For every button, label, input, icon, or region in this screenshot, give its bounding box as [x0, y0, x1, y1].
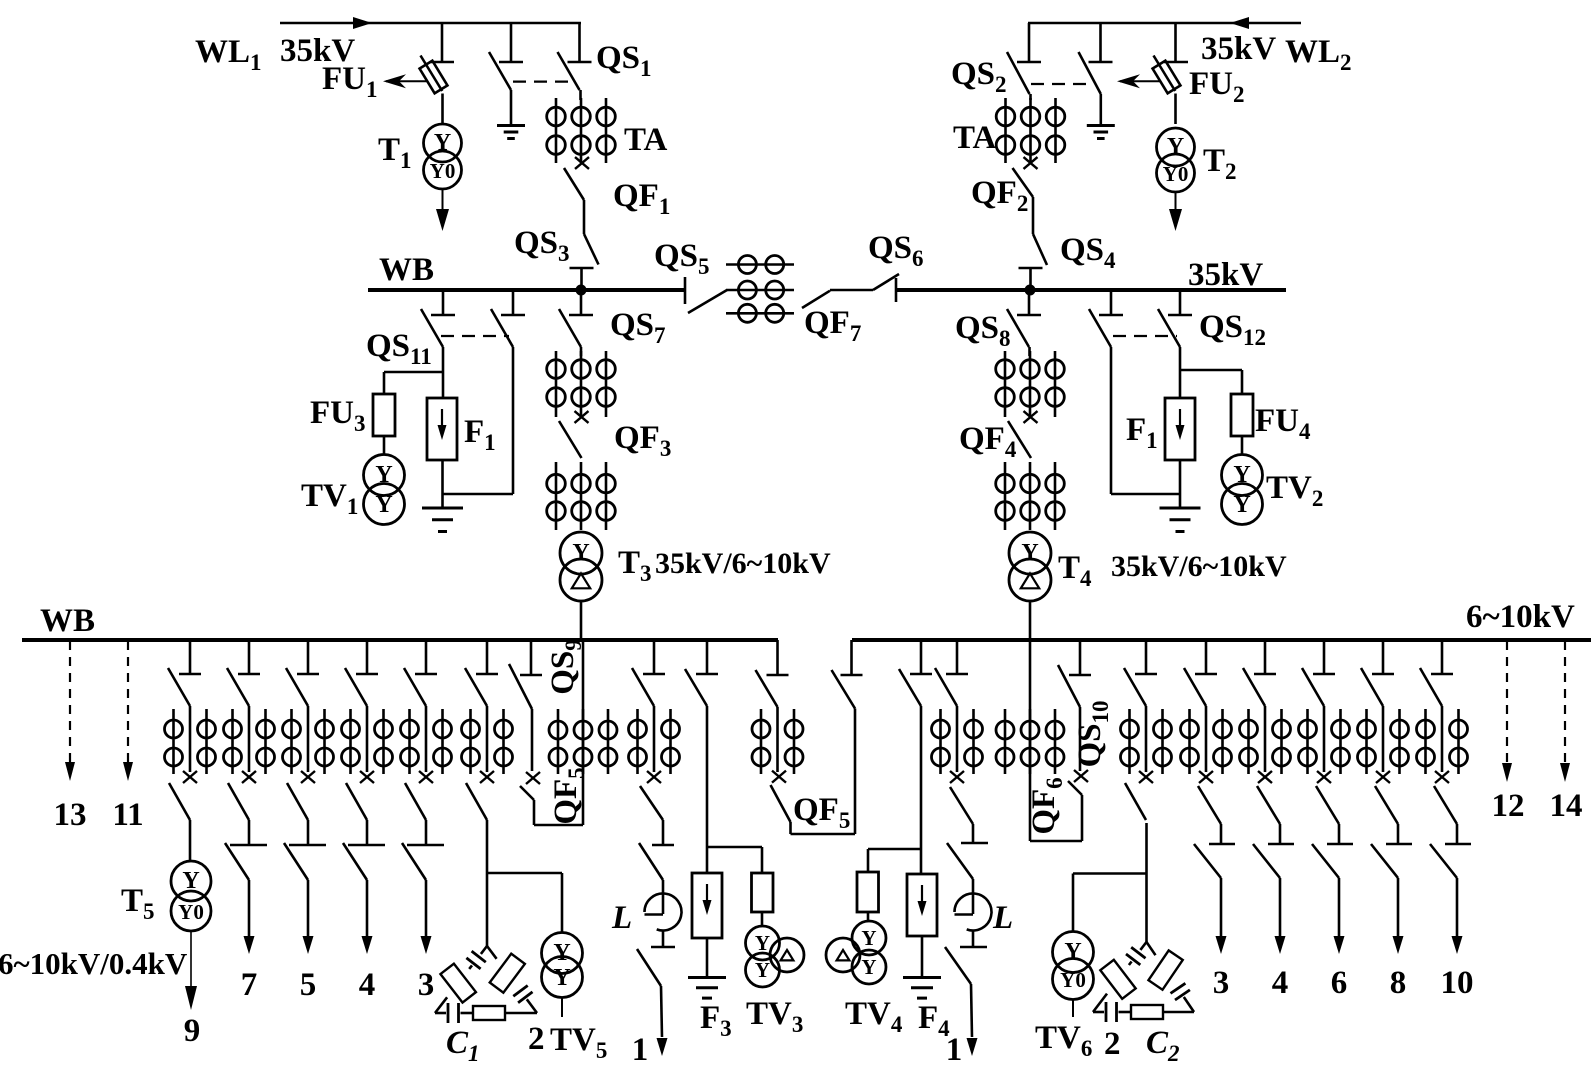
incoming line WL1 35kV: [280, 22, 581, 25]
disconnector QS11 (left branch): [421, 290, 455, 347]
fuse FU4: [1231, 370, 1253, 436]
svg-text:11: 11: [112, 797, 143, 833]
disconnector QS9: [509, 640, 542, 709]
svg-text:1: 1: [632, 1032, 649, 1066]
disconnector (feeder 4 feeder): [345, 640, 378, 706]
station transformer T5: [171, 861, 211, 931]
load-side disconnector (feeder 3 right): [1194, 824, 1235, 878]
tie link wire: [791, 833, 856, 836]
svg-text:3: 3: [418, 967, 435, 1003]
svg-text:Y0: Y0: [178, 900, 204, 924]
ground (F4): [903, 976, 941, 979]
wire QS11 right branch down: [512, 347, 515, 494]
arrow below T5: [185, 931, 197, 1010]
svg-text:7: 7: [241, 967, 258, 1003]
ground (WL2 earthing): [1087, 124, 1115, 127]
svg-text:5: 5: [300, 967, 317, 1003]
circuit breaker (capacitor bank C1): [466, 771, 494, 820]
svg-text:Y: Y: [755, 931, 770, 955]
svg-text:35kV/6~10kV: 35kV/6~10kV: [1111, 550, 1287, 583]
transformer T2: [1157, 128, 1195, 192]
T3 incomer line through bus: [582, 640, 585, 825]
ground (F3): [688, 976, 726, 979]
current transformer TA (feeder 4): [342, 709, 393, 774]
wire to TA (capacitor bank C1): [486, 706, 489, 772]
circuit breaker (feeder 8 right): [1375, 771, 1398, 824]
interlock dashed link (right): [1031, 83, 1092, 85]
outgoing arrow (feeder 3 right): [1216, 878, 1227, 954]
node (QS4 junction on right bus): [1025, 285, 1036, 296]
wire QF1 to QS3: [583, 200, 586, 234]
svg-text:8: 8: [1390, 965, 1407, 1001]
wire reactor to switch (feeder 1 right): [972, 931, 975, 948]
svg-text:6: 6: [1331, 965, 1348, 1001]
wire QS12 right branch down: [1179, 347, 1182, 398]
svg-text:3: 3: [1213, 965, 1230, 1001]
circuit breaker (feeder 3): [405, 771, 433, 820]
wire QF6 down: [1081, 795, 1084, 841]
circuit breaker (feeder 10 right): [1434, 771, 1457, 824]
capacitor bank C2 (delta): [1093, 942, 1194, 1022]
6~10kV busbar WB (left section): [22, 638, 778, 642]
disconnector QS6 fixed contact: [895, 278, 898, 302]
disconnector QS2: [1028, 23, 1031, 62]
wire to TA (feeder 1 right): [956, 706, 959, 772]
current transformer TA (capacitor bank C2): [1121, 709, 1172, 774]
transformer T4: [1009, 532, 1051, 601]
arrow at FU2: [1117, 74, 1161, 88]
wire QF5 tie down: [789, 822, 792, 834]
current transformer TA (left 35kV): [547, 98, 616, 163]
wire to TA (feeder 8 right): [1382, 706, 1385, 772]
circuit breaker (feeder 4 right): [1257, 771, 1280, 824]
wire F1 to ground (right): [1179, 460, 1182, 508]
disconnector QS12 (right branch): [1158, 290, 1192, 347]
outgoing arrow (feeder 10 right): [1452, 878, 1463, 954]
wire to TA (capacitor bank C2): [1145, 706, 1148, 772]
surge arrester F4: [907, 874, 937, 936]
wire QS2 to TA: [1029, 94, 1032, 100]
wire to TA (bus tie): [776, 707, 779, 772]
disconnector (capacitor bank C1 feeder): [465, 640, 498, 706]
power-flow arrow on WL1: [353, 17, 372, 29]
svg-text:9: 9: [184, 1013, 201, 1049]
wire QS8 to TA: [1028, 347, 1031, 356]
circuit breaker (feeder 1 left): [640, 771, 663, 820]
reserve feeder 12 (dashed): [1502, 641, 1512, 782]
wire QS1 to TA: [579, 90, 582, 100]
ground (below F1 right): [1160, 507, 1201, 510]
fuse FU1: [420, 56, 448, 94]
wire QS11 branch to arrester F1: [442, 372, 445, 398]
disconnector (feeder 3 feeder): [404, 640, 437, 706]
circuit breaker (feeder 3 right): [1198, 771, 1221, 824]
outgoing arrow (feeder 1 right): [967, 984, 978, 1056]
ground (WL1 earthing): [497, 124, 525, 127]
disconnector (bus tie left): [756, 640, 789, 707]
circuit breaker (feeder 7): [228, 771, 256, 820]
link QF5 to T3 line: [534, 824, 583, 827]
wire to TA (feeder 1 left): [653, 706, 656, 772]
load-side disconnector (feeder 5): [284, 820, 326, 880]
outgoing arrow (feeder 1 left): [657, 986, 668, 1056]
svg-text:14: 14: [1550, 788, 1583, 824]
wire down (F4 feeder): [920, 706, 923, 874]
current transformer TA (below QF4): [996, 462, 1065, 530]
svg-text:35kV: 35kV: [1188, 257, 1263, 293]
circuit breaker (feeder 1 right): [950, 771, 973, 824]
current transformer TA (bus tie): [726, 256, 794, 323]
wire to TA (feeder 10 right): [1441, 706, 1444, 772]
svg-text:12: 12: [1492, 788, 1525, 824]
disconnector QS3: [570, 234, 599, 288]
svg-text:Y: Y: [861, 926, 876, 950]
wire QF7 to QS6: [830, 289, 873, 292]
fuse FU2 body: [1153, 56, 1181, 94]
interlock dashed link (left): [513, 80, 568, 82]
svg-text:Y: Y: [1021, 540, 1038, 566]
circuit breaker QF1: [564, 157, 589, 200]
6~10kV busbar (right section): [852, 638, 1591, 642]
circuit breaker QF6: [1068, 770, 1088, 795]
tail below TV6: [1072, 1000, 1074, 1018]
wire reactor to switch (feeder 1 left): [662, 931, 665, 948]
circuit breaker (feeder 4): [346, 771, 374, 820]
load-side disconnector (feeder 1 right): [947, 843, 988, 879]
transformer T1: [424, 124, 462, 189]
link QF6 to T4 line: [1030, 840, 1082, 843]
capacitor bank C1 (delta): [435, 946, 537, 1023]
voltage transformer TV6: [1053, 932, 1094, 1000]
current transformer TA (T3 incomer): [549, 709, 617, 774]
wire fuse to TV4: [867, 912, 870, 921]
svg-text:Y0: Y0: [430, 159, 456, 183]
wire to load-side switch (feeder 1 left): [662, 820, 665, 845]
svg-text:6~10kV/0.4kV: 6~10kV/0.4kV: [0, 946, 188, 981]
tie riser wire: [854, 709, 857, 835]
svg-text:Y: Y: [1064, 939, 1081, 965]
svg-text:WB: WB: [40, 603, 95, 639]
reserve feeder 14 (dashed): [1560, 641, 1570, 782]
disconnector QS10: [1058, 640, 1091, 707]
outgoing arrow (feeder 4 right): [1275, 878, 1286, 954]
disconnector (feeder 10 right): [1420, 640, 1453, 706]
current transformer TA (T4 incomer): [996, 709, 1064, 774]
voltage transformer TV2: [1222, 455, 1263, 525]
transformer T3: [560, 532, 602, 601]
current transformer TA (feeder 7): [224, 709, 275, 774]
wire to TA (feeder 3): [425, 706, 428, 772]
svg-text:Y: Y: [375, 462, 392, 488]
branch to TV3: [707, 847, 762, 873]
load-side disconnector (feeder 8 right): [1371, 824, 1412, 878]
wire F4 to ground: [921, 936, 924, 977]
svg-text:Y0: Y0: [1163, 162, 1189, 186]
third disconnector (feeder 1 right): [945, 947, 987, 984]
svg-text:2: 2: [528, 1021, 545, 1057]
wire to reactor (feeder 1 left): [662, 880, 665, 914]
svg-text:4: 4: [359, 967, 376, 1003]
load-side disconnector (feeder 1 left): [639, 843, 674, 880]
svg-text:1: 1: [946, 1032, 963, 1066]
svg-text:13: 13: [54, 797, 87, 833]
wire FU3 to TV1: [383, 436, 386, 455]
svg-text:Y: Y: [553, 965, 570, 991]
svg-text:35kV: 35kV: [1201, 31, 1276, 67]
circuit breaker QF7 blade: [802, 291, 830, 308]
load-side disconnector (feeder 4): [343, 820, 385, 880]
circuit breaker QF2: [1013, 157, 1038, 197]
circuit breaker QF4: [1008, 411, 1038, 458]
ground (below F1 left): [422, 507, 463, 510]
svg-text:WB: WB: [379, 252, 434, 288]
current transformer TA (above QF4): [996, 351, 1065, 417]
wire FU4 to TV2: [1241, 436, 1244, 455]
load-side disconnector (feeder 3): [402, 820, 444, 880]
disconnector QS7: [559, 290, 593, 347]
svg-text:Y: Y: [1233, 462, 1250, 488]
current transformer TA (below QF3): [547, 462, 616, 530]
svg-text:TA: TA: [624, 122, 668, 158]
power-flow arrow on WL2: [1230, 17, 1249, 29]
tail below TV5: [561, 998, 563, 1018]
disconnector (earthing branch) on WL2: [1099, 23, 1102, 62]
wire to load-side switch (feeder 1 right): [972, 824, 975, 843]
svg-text:Y: Y: [182, 868, 199, 894]
disconnector QS12 (left branch): [1089, 290, 1123, 347]
reserve feeder 11 (dashed): [123, 641, 133, 781]
wire F3 to ground: [706, 938, 709, 977]
wire to TA (feeder 4 right): [1264, 706, 1267, 772]
current transformer TA (feeder 3): [401, 709, 452, 774]
disconnector (bus tie right): [832, 640, 863, 709]
outgoing arrow (feeder 8 right): [1393, 878, 1404, 954]
wire to TA (feeder 6 right): [1323, 706, 1326, 772]
outgoing arrow (feeder 4): [362, 880, 373, 954]
wire T3 to 6-10kV bus: [580, 601, 583, 640]
outgoing arrow (feeder 3): [421, 880, 432, 954]
35kV busbar (right section): [897, 288, 1286, 292]
outgoing arrow (feeder 6 right): [1334, 878, 1345, 954]
svg-text:Y: Y: [375, 492, 392, 518]
svg-text:6~10kV: 6~10kV: [1466, 599, 1575, 635]
disconnector QS5/QS7 blade: [688, 290, 727, 313]
fuse FU3: [373, 372, 395, 436]
wire to ground (WL2 earthing): [1100, 94, 1103, 124]
link wire to F1 ground (left): [443, 493, 513, 496]
current transformer TA (feeder 5): [283, 709, 334, 774]
outgoing arrow (feeder 7): [244, 880, 255, 954]
fuse (TV4): [857, 872, 879, 912]
fuse FU1 contact bar: [430, 61, 454, 64]
wire WL1 to FU1: [441, 23, 444, 62]
wire QF down to C1: [486, 820, 489, 946]
branch wire to TV6: [1073, 874, 1147, 932]
disconnector (feeder 3 right): [1184, 640, 1217, 706]
wire to TA (feeder 4): [366, 706, 369, 772]
wire QS11 left branch down: [442, 347, 445, 372]
fuse (TV3): [752, 873, 774, 912]
svg-text:2: 2: [1104, 1026, 1121, 1062]
interlock dashed link QS12: [1113, 335, 1177, 337]
circuit breaker (capacitor bank C2): [1125, 771, 1153, 820]
disconnector (F4 feeder): [899, 640, 932, 706]
current transformer TA (feeder 3 right): [1181, 709, 1232, 774]
arrow at FU1: [383, 74, 428, 88]
voltage transformer TV4: [826, 921, 886, 984]
35kV busbar WB (left section): [368, 288, 686, 292]
svg-text:TA: TA: [953, 120, 997, 156]
current transformer TA (bus tie 6-10kV): [752, 709, 803, 774]
reserve feeder 13 (dashed): [65, 641, 75, 781]
load-side disconnector (feeder 4 right): [1253, 824, 1294, 878]
circuit breaker QF5 (incomer): [520, 772, 540, 800]
wire down (F3 feeder): [706, 706, 709, 873]
interlock dashed link QS11: [441, 335, 509, 337]
svg-text:4: 4: [1272, 965, 1289, 1001]
circuit breaker (T5): [169, 771, 197, 820]
outgoing arrow (feeder 5): [303, 880, 314, 954]
disconnector (capacitor bank C2 feeder): [1124, 640, 1157, 706]
disconnector (feeder 7 feeder): [227, 640, 260, 706]
disconnector QS8: [1007, 290, 1041, 347]
svg-text:L: L: [611, 900, 632, 936]
reactor L (right): [955, 894, 992, 931]
current transformer TA (capacitor bank C1): [462, 709, 513, 774]
circuit breaker (feeder 6 right): [1316, 771, 1339, 824]
current transformer TA (feeder 4 right): [1240, 709, 1291, 774]
current transformer TA (feeder 10 right): [1417, 709, 1468, 774]
surge arrester F3: [692, 873, 722, 938]
current transformer TA (feeder 8 right): [1358, 709, 1409, 774]
disconnector (feeder 4 right): [1243, 640, 1276, 706]
current transformer TA (feeder 1 left): [629, 709, 680, 774]
wire to TA (feeder 5): [307, 706, 310, 772]
disconnector (feeder 1 right feeder): [935, 640, 968, 706]
wire FU2 to T2: [1174, 94, 1177, 125]
svg-text:Y: Y: [1233, 492, 1250, 518]
third disconnector (feeder 1 left): [637, 947, 675, 986]
wire to TA (T5): [189, 706, 192, 772]
svg-text:Y: Y: [572, 540, 589, 566]
voltage transformer TV1: [364, 455, 405, 525]
T4 incomer line through bus: [1029, 640, 1032, 841]
circuit breaker (feeder 5): [287, 771, 315, 820]
reactor L (left): [645, 894, 682, 931]
branch wire to TV5: [487, 873, 562, 932]
wire to TA (feeder 3 right): [1205, 706, 1208, 772]
svg-text:L: L: [992, 900, 1013, 936]
disconnector QS11 (right branch): [491, 290, 525, 347]
voltage transformer TV5: [542, 933, 583, 998]
surge arrester F1 (left): [427, 398, 457, 460]
fuse FU2 contact bar: [1164, 61, 1188, 64]
svg-text:Y: Y: [755, 958, 770, 982]
wire FU1 to T1: [441, 94, 444, 125]
disconnector (earthing branch) on WL1: [510, 23, 513, 62]
svg-text:35kV/6~10kV: 35kV/6~10kV: [655, 547, 831, 580]
wire to reactor (feeder 1 right): [972, 879, 975, 914]
disconnector (feeder 6 right): [1302, 640, 1335, 706]
disconnector (feeder 5 feeder): [286, 640, 319, 706]
wire QF2 to QS4: [1032, 197, 1035, 234]
svg-text:Y: Y: [861, 955, 876, 979]
link wire to F1 ground (right): [1111, 493, 1180, 496]
disconnector QS6 blade: [873, 274, 899, 290]
disconnector (F3 feeder): [685, 640, 718, 706]
incoming line WL2 35kV: [1028, 22, 1301, 25]
disconnector (feeder 8 right): [1361, 640, 1394, 706]
disconnector QS4: [1019, 234, 1048, 288]
disconnector QS1: [578, 23, 581, 62]
node (QS3 junction on left bus): [576, 285, 587, 296]
wire to FU3: [384, 371, 443, 374]
wire fuse to TV3: [761, 912, 764, 927]
load-side disconnector (feeder 6 right): [1312, 824, 1353, 878]
wire QF down to C2: [1145, 823, 1148, 942]
circuit breaker QF3: [559, 411, 589, 458]
svg-text:Y: Y: [1167, 134, 1184, 160]
svg-text:Y0: Y0: [1060, 968, 1086, 992]
wire to FU4: [1180, 369, 1242, 372]
load arrow below T2: [1169, 192, 1182, 231]
wire QS7 to TA: [580, 347, 583, 356]
wire QS12 left branch down: [1110, 347, 1113, 494]
load-side disconnector (feeder 7): [225, 820, 267, 880]
wire to ground (WL1 earthing): [510, 90, 513, 124]
disconnector (T5 feeder): [168, 640, 201, 706]
surge arrester F1 (right): [1165, 398, 1195, 460]
current transformer TA (right 35kV): [996, 98, 1065, 163]
circuit breaker QF5 (bus tie): [771, 771, 791, 822]
wire F1 to ground (left): [441, 460, 444, 508]
wire T4 to 6-10kV bus: [1029, 601, 1032, 640]
current transformer TA (T5): [165, 709, 216, 774]
disconnector (feeder 1 left feeder): [632, 640, 665, 706]
wire FU2 top: [1174, 23, 1177, 62]
load arrow below T1: [436, 189, 449, 231]
current transformer TA (above QF3): [547, 351, 616, 417]
current transformer TA (feeder 1 right): [932, 709, 983, 774]
branch to TV4: [868, 849, 921, 872]
wire QS10 to QF6: [1079, 707, 1082, 771]
current transformer TA (feeder 6 right): [1299, 709, 1350, 774]
load-side disconnector (feeder 10 right): [1430, 824, 1471, 878]
wire to TA (feeder 7): [248, 706, 251, 772]
voltage transformer TV3: [746, 926, 805, 987]
svg-text:Y: Y: [553, 940, 570, 966]
svg-text:10: 10: [1441, 965, 1474, 1001]
svg-text:Y: Y: [434, 130, 451, 156]
disconnector QS5 fixed contact: [684, 277, 687, 304]
wire QF to T5: [189, 820, 192, 861]
wire QF5 down: [533, 800, 536, 825]
wire QS9 to QF5: [531, 709, 534, 771]
